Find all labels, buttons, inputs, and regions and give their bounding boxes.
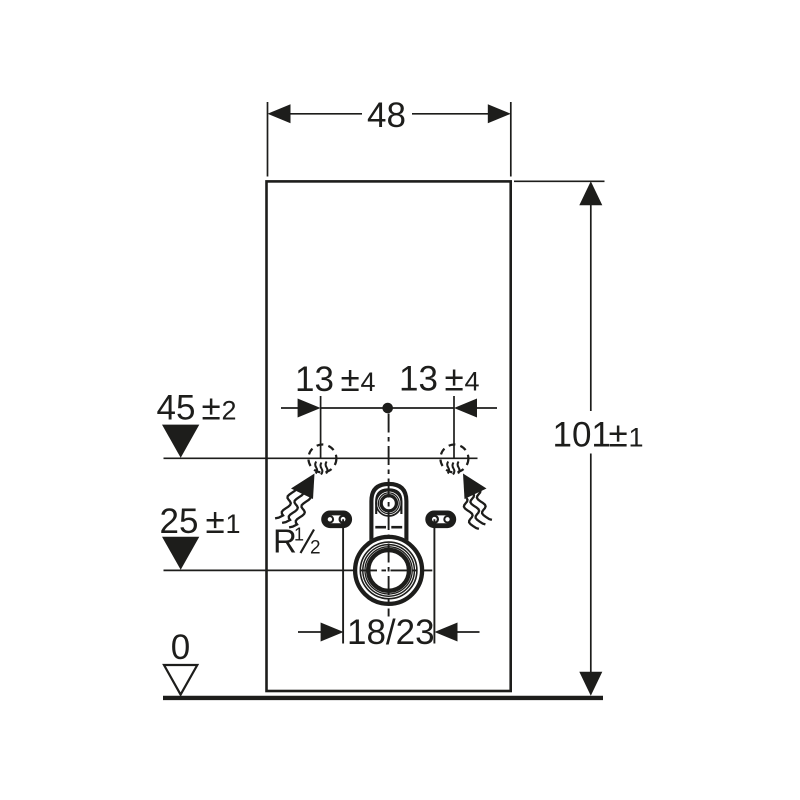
level line 25 [164,569,361,571]
svg-text:0: 0 [171,628,190,667]
right fastening bracket [428,513,454,526]
dashed circle left (water supply point) [308,445,336,473]
flush bend housing (tongue) outer [371,484,406,545]
left bracket outer hole [327,516,333,522]
water squiggles left [275,488,310,528]
ground line [163,696,603,700]
dimension line 101 upper segment [590,204,592,411]
level marker triangle 25 [162,537,199,570]
dimension line 101 lower segment [590,454,592,675]
water arrow left [291,474,315,500]
arrow left toward right tick [454,399,477,418]
zero level open triangle [164,665,197,695]
small water squiggles in left circle [315,462,327,475]
outlet big circle white base [353,535,424,606]
svg-text:4: 4 [465,367,480,397]
svg-text:25: 25 [160,502,199,541]
svg-text:±: ± [206,502,225,541]
dashed circle right (water supply point) [440,445,468,473]
dashed crossline in housing [375,526,402,529]
svg-text:101: 101 [553,415,611,454]
svg-text:13: 13 [295,360,334,399]
vertical centerline [388,414,390,617]
right bracket outer hole [444,516,450,522]
svg-text:48: 48 [367,96,406,135]
dim line 13/13 right tail [476,407,497,409]
extension line right for width 48 [510,102,512,177]
leader from right bracket hole [433,519,435,643]
outlet rings [355,537,422,604]
svg-text:4: 4 [361,367,376,397]
left tick for 13 [320,396,322,459]
svg-text:±: ± [609,415,628,454]
dim 18/23 right tail [456,631,480,633]
svg-text:2: 2 [310,538,321,559]
small water squiggles in right circle [447,462,459,475]
svg-text:2: 2 [222,395,237,425]
svg-text:±: ± [202,388,221,427]
level marker triangle 45 [162,425,199,458]
dimension line 48 right segment [412,113,489,115]
arrow right of dim 48 [488,104,511,123]
leader from left bracket hole [342,519,344,643]
horizontal centerline through outlet [360,569,432,571]
arrow left of dim 48 [268,104,291,123]
level line 45 [164,457,478,459]
arrow left toward right tick 18/23 [435,623,458,642]
dim line between ticks [321,407,454,409]
arrow right toward left tick [298,399,321,418]
extension line top right for height 101 [514,180,605,182]
extension line left for width 48 [267,102,269,177]
right bracket inner hole [431,516,438,523]
left bracket inner hole [340,516,347,523]
dim 18/23 left tail [298,631,322,633]
left fastening bracket [324,513,350,526]
svg-text:18/23: 18/23 [347,613,435,652]
svg-text:1: 1 [294,525,304,545]
arrow right toward left tick 18/23 [321,623,344,642]
dimension line 48 left segment [289,113,362,115]
arrow up of dim 101 [579,181,602,205]
right tick for 13 [453,396,455,459]
flush pipe rings [376,491,401,516]
dim line 13/13 left tail [281,407,299,409]
arrow down of dim 101 [579,672,602,696]
water squiggles right [464,489,492,529]
svg-text:1: 1 [226,509,241,539]
svg-text:13: 13 [399,360,438,399]
svg-text:±: ± [341,360,360,399]
svg-text:±: ± [445,360,464,399]
svg-text:45: 45 [157,388,196,427]
panel outline (sanitary module front view) [267,181,511,691]
svg-text:1: 1 [629,422,644,452]
center dot on dim line [382,403,393,414]
water arrow right [463,474,487,500]
flush bend housing inner shoulder [376,489,401,514]
